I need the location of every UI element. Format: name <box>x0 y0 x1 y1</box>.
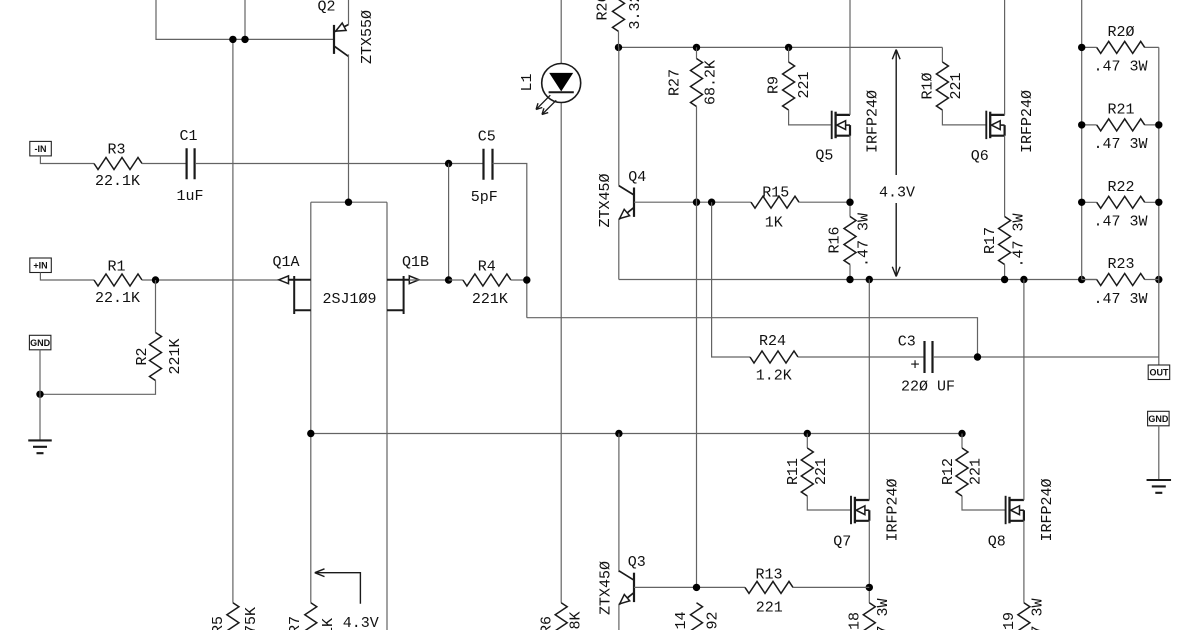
svg-text:C3: C3 <box>898 334 916 351</box>
svg-text:ZTX55Ø: ZTX55Ø <box>359 10 376 64</box>
node <box>1020 276 1027 283</box>
svg-text:221: 221 <box>948 72 965 99</box>
node <box>229 36 236 43</box>
svg-text:22.1K: 22.1K <box>95 290 140 307</box>
wire <box>849 0 851 115</box>
wire <box>409 279 449 281</box>
svg-text:22.1K: 22.1K <box>95 173 140 190</box>
svg-text:R15: R15 <box>762 185 789 202</box>
svg-text:R24: R24 <box>759 333 786 350</box>
capacitor C1 <box>187 148 195 179</box>
svg-text:221K: 221K <box>472 291 508 308</box>
svg-text:.47 3W: .47 3W <box>1093 136 1147 153</box>
transistor Q1B <box>403 276 405 314</box>
node <box>523 276 530 283</box>
svg-text:R11: R11 <box>785 458 802 485</box>
node <box>1078 44 1085 51</box>
transistor Q2 <box>333 25 335 54</box>
node <box>615 44 622 51</box>
wire <box>527 318 978 357</box>
resistor R7 <box>305 603 317 630</box>
resistor R22 <box>1097 196 1145 208</box>
svg-text:IRFP24Ø: IRFP24Ø <box>1039 478 1056 541</box>
wire <box>942 110 986 125</box>
resistor R10 <box>936 62 948 110</box>
wire <box>311 201 387 203</box>
svg-text:-IN: -IN <box>35 144 47 154</box>
wire <box>868 521 870 603</box>
wire <box>962 496 1006 510</box>
svg-text:+: + <box>910 357 920 375</box>
node <box>1155 121 1162 128</box>
capacitor C5 <box>484 149 493 180</box>
wire <box>195 163 483 165</box>
svg-text:ZTX45Ø: ZTX45Ø <box>597 173 614 227</box>
wire <box>142 279 289 281</box>
transistor Q5 <box>831 111 833 139</box>
wire <box>310 202 312 603</box>
resistor R14 <box>691 603 703 630</box>
wire <box>448 164 450 281</box>
LED L1 <box>542 64 581 103</box>
node <box>958 430 965 437</box>
svg-text:Q1B: Q1B <box>402 254 429 271</box>
svg-text:IRFP24Ø: IRFP24Ø <box>885 478 902 541</box>
svg-text:2SJ1Ø9: 2SJ1Ø9 <box>322 291 376 308</box>
resistor R20 <box>1097 41 1145 53</box>
wire <box>511 279 527 281</box>
resistor R16 <box>844 217 856 265</box>
svg-text:Q1A: Q1A <box>272 254 299 271</box>
wire <box>1082 201 1159 203</box>
resistor R12 <box>956 448 968 496</box>
wire <box>634 201 751 203</box>
wire <box>696 47 698 58</box>
svg-text:68K: 68K <box>568 611 585 630</box>
svg-text:R27: R27 <box>667 69 684 96</box>
svg-text:Q2: Q2 <box>317 0 335 16</box>
resistor R3 <box>94 158 142 170</box>
svg-text:L1: L1 <box>519 73 536 91</box>
transistor Q6 <box>985 111 987 139</box>
svg-text:R5: R5 <box>210 616 227 630</box>
wire <box>618 434 620 573</box>
resistor R21 <box>1097 119 1145 131</box>
resistor R6 <box>555 603 567 630</box>
node <box>36 391 43 398</box>
wire <box>788 47 790 62</box>
svg-text:.47 3W: .47 3W <box>856 213 873 267</box>
svg-text:Q4: Q4 <box>628 169 646 186</box>
ground <box>28 440 52 453</box>
svg-text:R3: R3 <box>107 142 125 159</box>
wire <box>619 46 943 48</box>
wire <box>1158 426 1160 480</box>
node <box>866 584 873 591</box>
wire <box>1004 135 1006 216</box>
wire <box>696 107 698 588</box>
resistor R26 <box>613 0 625 31</box>
svg-text:R21: R21 <box>1107 101 1134 118</box>
svg-text:R1Ø: R1Ø <box>920 72 937 99</box>
measure arrow 4.3V <box>895 50 897 277</box>
wire <box>449 279 463 281</box>
node <box>1078 199 1085 206</box>
resistor R1 <box>94 274 142 286</box>
resistor R18 <box>863 603 875 630</box>
wire <box>386 202 388 630</box>
wire <box>40 381 156 395</box>
wire <box>1082 46 1159 48</box>
wire <box>40 273 94 281</box>
port GND <box>1148 411 1170 426</box>
wire <box>618 47 620 185</box>
svg-text:221: 221 <box>796 71 813 98</box>
wire <box>156 0 334 39</box>
svg-text:IRFP24Ø: IRFP24Ø <box>1019 90 1036 153</box>
node <box>152 276 159 283</box>
wire <box>799 201 850 203</box>
node <box>615 430 622 437</box>
svg-text:221: 221 <box>968 458 985 485</box>
wire <box>39 350 41 441</box>
node <box>1155 199 1162 206</box>
wire <box>1082 279 1159 281</box>
wire <box>311 433 962 435</box>
wire <box>849 265 851 280</box>
svg-text:1.2K: 1.2K <box>756 368 792 385</box>
svg-text:R2: R2 <box>134 347 151 365</box>
svg-text:R14: R14 <box>673 611 690 630</box>
wire <box>941 47 943 62</box>
svg-text:R22: R22 <box>1107 179 1134 196</box>
ground <box>1147 480 1172 493</box>
resistor R11 <box>801 448 813 496</box>
resistor R2 <box>150 333 162 381</box>
svg-text:Q7: Q7 <box>833 534 851 551</box>
svg-text:Q3: Q3 <box>628 554 646 571</box>
svg-text:221K: 221K <box>167 338 184 374</box>
resistor R4 <box>463 274 511 286</box>
wire <box>634 586 745 588</box>
svg-text:.47 3W: .47 3W <box>1010 213 1027 267</box>
transistor Q7 <box>850 496 852 524</box>
node <box>974 353 981 360</box>
svg-text:R7: R7 <box>287 616 304 630</box>
port GND <box>29 335 51 350</box>
node <box>846 199 853 206</box>
wire <box>1023 521 1025 603</box>
node <box>785 44 792 51</box>
wire <box>1004 265 1006 280</box>
wire <box>1081 0 1083 280</box>
wire <box>933 356 1159 358</box>
node <box>445 160 452 167</box>
lamp arrows <box>536 95 556 114</box>
wire <box>619 279 1097 281</box>
node <box>1155 276 1162 283</box>
transistor Q1A <box>293 276 295 314</box>
svg-text:3.32K: 3.32K <box>627 0 644 30</box>
wire <box>244 0 246 39</box>
svg-text:392: 392 <box>705 611 722 630</box>
svg-text:GND: GND <box>1148 414 1169 424</box>
svg-text:R6: R6 <box>539 616 556 630</box>
resistor R9 <box>783 62 795 110</box>
node <box>345 199 352 206</box>
node <box>846 276 853 283</box>
wire <box>348 0 350 25</box>
svg-text:ZTX45Ø: ZTX45Ø <box>598 561 615 615</box>
wire <box>618 31 620 47</box>
wire <box>618 605 620 630</box>
wire <box>1158 47 1160 357</box>
wire <box>155 280 157 333</box>
svg-text:.47 3W: .47 3W <box>1029 598 1046 630</box>
resistor R23 <box>1097 274 1145 286</box>
svg-text:R17: R17 <box>982 227 999 254</box>
svg-text:R18: R18 <box>847 612 864 630</box>
wire <box>40 156 94 164</box>
node <box>866 276 873 283</box>
resistor R5 <box>227 603 239 630</box>
node <box>693 199 700 206</box>
port OUT <box>1148 365 1170 380</box>
node <box>307 430 314 437</box>
wire <box>961 434 963 449</box>
resistor R24 <box>750 351 798 363</box>
wire <box>798 356 924 358</box>
node <box>708 199 715 206</box>
port +IN <box>30 258 52 273</box>
wire <box>493 164 527 318</box>
svg-text:R9: R9 <box>766 76 783 94</box>
svg-text:R1: R1 <box>107 258 125 275</box>
port -IN <box>30 141 52 156</box>
capacitor C3 <box>925 341 933 373</box>
svg-text:Q6: Q6 <box>971 148 989 165</box>
svg-text:C5: C5 <box>478 129 496 146</box>
svg-text:1K: 1K <box>765 215 783 232</box>
svg-text:R12: R12 <box>940 458 957 485</box>
wire <box>142 163 186 165</box>
svg-text:1uF: 1uF <box>176 188 203 205</box>
svg-text:221: 221 <box>756 600 783 617</box>
wire <box>849 135 851 216</box>
svg-text:R2Ø: R2Ø <box>1107 24 1134 41</box>
node <box>241 36 248 43</box>
wire <box>807 496 851 510</box>
svg-text:375K: 375K <box>243 607 260 630</box>
wire <box>793 586 869 588</box>
wire <box>1158 357 1160 365</box>
node <box>1078 276 1085 283</box>
wire <box>868 280 870 501</box>
svg-text:R16: R16 <box>827 226 844 253</box>
svg-text:68.2K: 68.2K <box>703 60 720 105</box>
wire <box>560 0 562 603</box>
svg-text:R26: R26 <box>595 0 612 21</box>
resistor R27 <box>691 59 703 107</box>
transistor Q3 <box>633 573 635 602</box>
svg-text:R4: R4 <box>478 259 496 276</box>
measure arrow 4.3V <box>315 573 361 604</box>
svg-text:+IN: +IN <box>33 260 47 270</box>
svg-text:4.3V: 4.3V <box>879 185 915 202</box>
svg-text:C1: C1 <box>179 128 197 145</box>
svg-text:1K: 1K <box>320 618 337 630</box>
wire <box>1082 124 1159 126</box>
node <box>693 584 700 591</box>
svg-text:OUT: OUT <box>1149 367 1169 377</box>
node <box>1001 276 1008 283</box>
svg-text:GND: GND <box>30 338 51 348</box>
wire <box>232 39 234 602</box>
svg-text:R13: R13 <box>755 567 782 584</box>
svg-text:Q8: Q8 <box>988 534 1006 551</box>
wire <box>618 220 620 280</box>
svg-text:Q5: Q5 <box>815 148 833 165</box>
svg-text:22Ø UF: 22Ø UF <box>901 379 955 396</box>
wire <box>789 110 832 125</box>
wire <box>348 54 350 202</box>
transistor Q8 <box>1005 496 1007 524</box>
svg-text:IRFP24Ø: IRFP24Ø <box>865 90 882 153</box>
svg-text:5pF: 5pF <box>471 189 498 206</box>
resistor R15 <box>751 196 799 208</box>
svg-text:.47 3W: .47 3W <box>1093 214 1147 231</box>
wire <box>1004 0 1006 115</box>
svg-text:4.3V: 4.3V <box>343 615 379 630</box>
wire <box>1023 280 1025 501</box>
node <box>1078 121 1085 128</box>
node <box>693 44 700 51</box>
node <box>445 276 452 283</box>
wire <box>712 202 750 357</box>
svg-text:.47 3W: .47 3W <box>1093 291 1147 308</box>
resistor R13 <box>745 581 793 593</box>
svg-text:.47 3W: .47 3W <box>1093 59 1147 76</box>
resistor R19 <box>1018 603 1030 630</box>
transistor Q4 <box>633 188 635 217</box>
svg-text:R19: R19 <box>1001 612 1018 630</box>
resistor R17 <box>999 217 1011 265</box>
wire <box>806 434 808 449</box>
node <box>804 430 811 437</box>
svg-text:R23: R23 <box>1107 256 1134 273</box>
svg-text:.47 3W: .47 3W <box>875 598 892 630</box>
svg-text:221: 221 <box>813 458 830 485</box>
